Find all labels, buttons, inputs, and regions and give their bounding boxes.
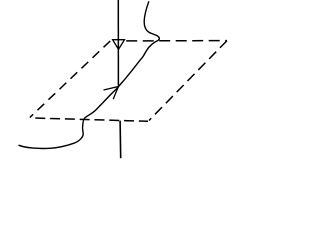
open arrowhead on vertical line (points down) [113, 40, 125, 50]
dashed plane edge: top [126, 40, 227, 42]
dashed plane edge: right [149, 41, 227, 121]
arrowhead on curved line [104, 87, 118, 99]
dashed plane edge: left [30, 41, 111, 118]
dashed plane edge: bottom [31, 118, 149, 121]
vertical line upper segment (through plane) [117, 0, 119, 86]
vertical line lower segment (below plane) [119, 121, 122, 159]
curved line through plane [19, 2, 159, 149]
